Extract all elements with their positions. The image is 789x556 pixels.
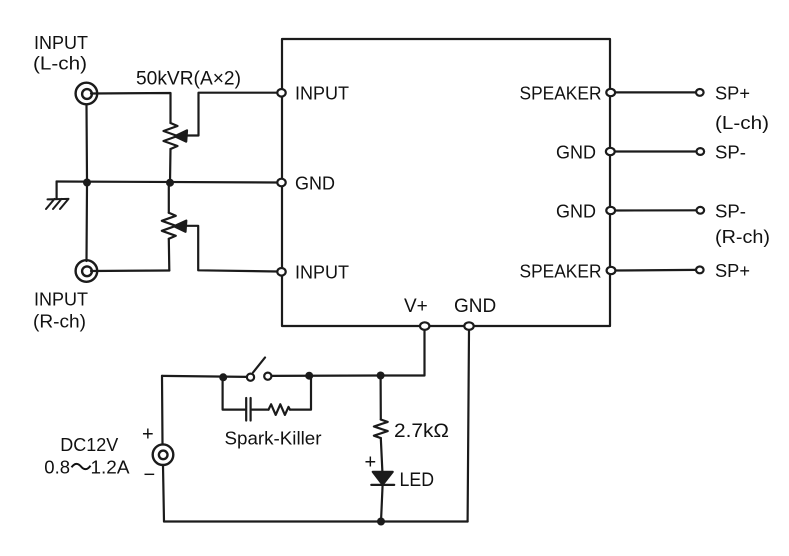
bottom bus wire: [164, 520, 468, 522]
wire GND bus down to R-ch jack: [85, 185, 88, 262]
LED D1 triangle: [373, 472, 393, 485]
svg-text:50kVR(A×2): 50kVR(A×2): [136, 69, 241, 90]
potentiometer VR1 (L-ch) zigzag: [164, 123, 178, 149]
terminal SP- Rch: [697, 207, 705, 214]
wiper arrow VR2: [174, 221, 186, 232]
terminal SPEAKER L: [606, 89, 615, 96]
svg-text:(L-ch): (L-ch): [715, 112, 769, 133]
wire pot VR2 bottom to jack wire: [168, 239, 171, 271]
terminal V+: [420, 322, 429, 330]
ground stub wire: [55, 182, 57, 200]
junction dot bottom bus: [377, 518, 385, 526]
svg-text:INPUT: INPUT: [295, 262, 349, 283]
speaker wire R-ch SP-: [615, 209, 697, 211]
wire L-ch jack down to GND bus: [85, 105, 88, 181]
svg-text:SP-: SP-: [715, 141, 746, 162]
RCA jack J2 (R-ch): [76, 260, 98, 282]
LED D1 cathode bar: [371, 484, 394, 486]
junction dot switch right: [305, 372, 313, 380]
junction dot GND-jack: [83, 179, 91, 187]
wire V+ terminal down to switch line: [381, 330, 425, 376]
wire R-ch jack to pot bottom: [91, 269, 169, 272]
speaker wire R-ch SP+: [615, 269, 696, 272]
svg-text:SP+: SP+: [715, 82, 750, 103]
wire pot VR1 bottom to GND line: [169, 149, 172, 183]
svg-text:SP+: SP+: [715, 260, 750, 281]
svg-text:GND: GND: [295, 172, 335, 193]
svg-text:SPEAKER: SPEAKER: [520, 260, 602, 281]
wiper wire VR1 to INPUT terminal: [186, 93, 278, 136]
svg-text:SP-: SP-: [715, 200, 746, 221]
svg-text:(L-ch): (L-ch): [33, 53, 87, 74]
ground symbol: [46, 199, 69, 209]
svg-text:V+: V+: [404, 296, 428, 317]
snubber left leg wire: [223, 378, 245, 410]
svg-text:+: +: [365, 452, 377, 474]
tilde wave: [72, 464, 91, 469]
RCA jack J1 (L-ch): [76, 83, 98, 105]
wire V+ dot to resistor R1: [380, 376, 382, 420]
svg-text:GND: GND: [556, 200, 596, 221]
wiper arrow VR1: [175, 130, 187, 141]
svg-text:DC12V: DC12V: [60, 434, 119, 455]
svg-text:(R-ch): (R-ch): [33, 311, 86, 332]
wire battery - to bottom bus: [163, 465, 164, 521]
svg-text:−: −: [144, 464, 156, 486]
potentiometer VR2 (R-ch) zigzag: [162, 213, 176, 239]
junction dot switch left: [219, 373, 227, 381]
wire GND terminal down right side: [468, 330, 469, 522]
resistor R1 2.7k zigzag: [374, 420, 388, 439]
wire LED to bottom bus: [381, 485, 383, 522]
svg-text:GND: GND: [556, 141, 596, 162]
amplifier module box U1: [282, 39, 610, 326]
wiper wire VR2 to INPUT terminal: [186, 226, 278, 272]
speaker wire L-ch SP+: [615, 91, 697, 93]
DC source BT1 symbol: [153, 444, 174, 465]
svg-text:GND: GND: [454, 296, 496, 317]
switch contact circles: [247, 374, 254, 381]
switch lever SW1: [253, 358, 265, 373]
terminal GND bottom: [464, 322, 473, 330]
svg-text:Spark-Killer: Spark-Killer: [225, 428, 322, 448]
terminal SP- Lch: [697, 148, 705, 155]
capacitor C1 plates: [246, 398, 250, 421]
terminal INPUT R: [277, 268, 285, 276]
svg-text:2.7kΩ: 2.7kΩ: [394, 421, 449, 442]
wire cap to resistor: [252, 409, 269, 411]
switch line right segment: [271, 374, 380, 377]
wire R1 to LED: [381, 438, 383, 472]
terminal SP+ Lch: [696, 89, 704, 96]
svg-text:INPUT: INPUT: [34, 32, 88, 53]
svg-text:+: +: [142, 424, 154, 446]
wire L-ch jack to pot top: [91, 93, 171, 123]
svg-text:SPEAKER: SPEAKER: [520, 82, 602, 103]
terminal GND right2: [606, 207, 615, 214]
wire switch line to battery +: [161, 376, 164, 444]
switch line left segment: [162, 376, 247, 377]
svg-text:1.2A: 1.2A: [91, 457, 131, 478]
svg-text:0.8: 0.8: [44, 457, 70, 478]
svg-text:INPUT: INPUT: [295, 83, 349, 104]
resistor R-snubber zigzag: [269, 404, 291, 415]
junction dot V+ branch: [377, 372, 385, 380]
speaker wire L-ch SP-: [614, 150, 697, 152]
junction dot GND-pot: [166, 179, 174, 187]
GND bus wire: [57, 182, 278, 183]
terminal GND right1: [606, 148, 615, 155]
terminal SPEAKER R: [607, 267, 616, 274]
terminal circles on module edge: [277, 89, 704, 330]
wire GND bus to pot VR2 top: [168, 185, 170, 213]
svg-text:LED: LED: [400, 470, 435, 491]
svg-text:(R-ch): (R-ch): [715, 226, 770, 247]
terminal SP+ Rch: [696, 267, 704, 274]
svg-text:INPUT: INPUT: [34, 289, 88, 310]
terminal INPUT L: [277, 89, 285, 97]
snubber right leg wire: [290, 376, 311, 410]
terminal GND left: [277, 179, 285, 187]
